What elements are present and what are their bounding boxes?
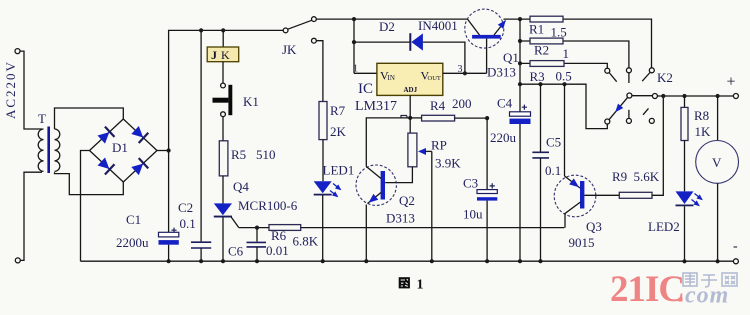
transistor Q3 base bar — [580, 181, 584, 209]
label J K — [211, 48, 230, 62]
relay contact K1 blade — [213, 85, 233, 115]
diode D1b (top corner to right corner) — [130, 125, 148, 143]
pin number 3 — [458, 64, 463, 75]
switch K2 bottom middle contact — [626, 118, 631, 123]
svg-text:D313: D313 — [386, 211, 415, 226]
wire: top rail from JK to Q1 collector — [316, 18, 467, 20]
label 3.9K — [435, 156, 461, 171]
svg-text:200: 200 — [452, 96, 472, 111]
switch K2 bottom left contact — [605, 119, 610, 124]
wire: RP bottom to Q2 base — [385, 167, 412, 183]
bridge D1 diamond arms — [90, 119, 158, 182]
resistor R5 — [219, 141, 228, 176]
label R2 — [534, 43, 549, 58]
node: Q2 emitter ground junction — [364, 259, 368, 263]
wire: ground rail — [81, 260, 734, 262]
wire: D2 line left segment — [354, 41, 410, 43]
pin number 1 — [353, 64, 358, 75]
node: junction bridge plus — [167, 148, 171, 152]
wire: VOUT wire to Q1 base — [443, 72, 487, 74]
svg-text:R7: R7 — [330, 103, 346, 118]
switch K2 bottom middle contact stub — [628, 110, 630, 119]
wire: R5 to SCR Q4 anode — [222, 176, 224, 204]
node: LED2 ground junction — [682, 259, 686, 263]
node: R9 output junction — [661, 94, 665, 98]
svg-text:220u: 220u — [490, 130, 517, 145]
wire: R4 to C3 column — [455, 117, 488, 119]
wire: gate line to R6 — [239, 227, 269, 229]
label R8 — [694, 108, 709, 123]
label 2200u — [116, 235, 149, 250]
svg-text:0.1: 0.1 — [545, 163, 561, 178]
wire: R8 top connection — [684, 96, 686, 107]
switch K2 top middle contact — [626, 68, 631, 73]
wire: gate line from R6 to Q3 collector corner — [301, 227, 565, 229]
svg-text:V: V — [712, 155, 722, 170]
node: AC input terminal top — [15, 49, 20, 54]
svg-text:D1: D1 — [112, 140, 128, 155]
capacitor C2 plates — [191, 242, 211, 248]
watermark 21IC — [610, 269, 684, 310]
label D313 Q1 — [487, 65, 516, 80]
wire: K2 pole to pole output contact — [632, 95, 653, 97]
wire: Q1 base down to VOUT line — [486, 39, 488, 74]
pin label Vout — [421, 69, 441, 83]
label R7 — [330, 103, 346, 118]
label minus terminal — [733, 239, 738, 254]
label MCR100-6 — [238, 198, 298, 213]
label R1 — [529, 22, 544, 37]
resistor R9 — [619, 192, 652, 198]
switch K2 pole — [627, 93, 632, 98]
wire: R3 line to K2 top left contact — [520, 63, 607, 68]
switch K2 top middle contact stub — [628, 73, 630, 83]
svg-text:OUT: OUT — [428, 75, 441, 82]
transistor Q1 base bar — [472, 35, 501, 39]
wire: LED1 cathode to ground rail — [322, 196, 324, 262]
capacitor C6 plates — [247, 242, 267, 247]
node: D2 anode junction — [352, 40, 356, 44]
label C5 — [546, 135, 561, 150]
svg-text:C1: C1 — [126, 212, 141, 227]
wire: VIN wire — [354, 72, 377, 74]
potentiometer RP body — [408, 133, 417, 167]
resistor R3 — [530, 61, 564, 67]
wire: ADJ node left to Q2 collector — [366, 118, 410, 167]
svg-text:510: 510 — [256, 147, 276, 162]
svg-text:LM317: LM317 — [355, 99, 397, 114]
wire: C6 to ground rail — [256, 247, 258, 261]
svg-text:D2: D2 — [379, 19, 395, 34]
label K1 — [243, 94, 259, 109]
svg-text:AC220V: AC220V — [3, 60, 18, 119]
svg-text:6.8K: 6.8K — [293, 234, 319, 249]
node: C1 ground junction — [167, 259, 171, 263]
svg-text:C6: C6 — [228, 244, 244, 259]
resistor R4 — [422, 115, 455, 121]
wire: LED2 to ground rail — [684, 206, 686, 261]
capacitor C4 plus mark — [522, 105, 527, 110]
label 10u — [463, 207, 483, 222]
svg-text:IC: IC — [358, 81, 373, 97]
node: output node junction — [518, 82, 522, 86]
svg-text:5.6K: 5.6K — [634, 169, 660, 184]
label 0.01 — [266, 243, 289, 258]
transistor Q1 emitter lead with arrow — [494, 18, 509, 35]
node: LED1 ground junction — [321, 259, 325, 263]
wire: RP wiper down to ground rail — [431, 151, 433, 261]
wire: ADJ node to R4 — [410, 117, 421, 119]
wire: R7 to LED1 — [322, 140, 324, 182]
svg-text:+: + — [727, 74, 736, 91]
svg-text:R2: R2 — [534, 43, 549, 58]
node: ADJ junction — [408, 116, 412, 120]
label 2K — [330, 124, 347, 139]
svg-text:R3: R3 — [530, 69, 545, 84]
svg-text:IN: IN — [388, 74, 395, 82]
label R5 — [231, 147, 246, 162]
wire: C4 to ground rail — [519, 124, 521, 261]
node: SCR ground junction — [221, 259, 225, 263]
capacitor C1 bottom plate — [159, 240, 179, 245]
svg-text:J: J — [211, 48, 217, 62]
wire: bridge minus (left corner) down to ground rail — [81, 151, 90, 262]
wire: C3 column down — [486, 118, 488, 190]
wire: positive column x=168.6 up to switch feed line — [169, 30, 284, 150]
diode D1a (left corner to top corner) — [97, 127, 115, 145]
svg-text:JK: JK — [282, 42, 297, 57]
caption figure 1 number — [417, 278, 424, 293]
svg-text:21IC: 21IC — [610, 269, 684, 310]
wire: relay coil to K1 contact top — [222, 62, 224, 83]
pin label Vin — [380, 69, 395, 83]
node: voltmeter output junction — [716, 94, 720, 98]
voltmeter V circle — [696, 141, 739, 184]
svg-text:0.1: 0.1 — [180, 216, 196, 231]
wire: SCR gate slant to gate line — [231, 217, 239, 228]
svg-text:1: 1 — [353, 64, 358, 75]
label LED1 — [323, 163, 355, 178]
switch JK blade — [288, 20, 312, 29]
label C1 — [126, 212, 141, 227]
transistor Q3 collector lead — [565, 202, 581, 228]
svg-text:Q2: Q2 — [399, 193, 415, 208]
svg-text:ADJ: ADJ — [404, 86, 418, 94]
capacitor C3 plus mark — [490, 183, 495, 188]
switch JK lower contact — [312, 38, 317, 43]
svg-text:0.01: 0.01 — [266, 243, 289, 258]
label R9 — [612, 169, 627, 184]
LED2 cathode bar — [676, 205, 694, 207]
resistor R2 — [530, 38, 563, 44]
node: D2 to VOUT junction — [463, 71, 467, 75]
capacitor C5 plates — [532, 152, 549, 158]
label 0.1 C5 — [545, 163, 561, 178]
wire: C5 to ground rail — [540, 158, 542, 261]
label 0.5 — [556, 69, 572, 84]
label R4 — [430, 98, 446, 113]
label 1.5 — [551, 25, 567, 40]
wire: RP top connection — [409, 118, 411, 133]
svg-text:R5: R5 — [231, 147, 246, 162]
label 1K — [695, 124, 712, 139]
label R3 — [530, 69, 545, 84]
label Q3 — [586, 219, 602, 234]
svg-text:R6: R6 — [271, 228, 287, 243]
svg-text:LED2: LED2 — [648, 219, 680, 234]
wire: C1 to ground rail — [168, 245, 170, 262]
svg-text:C5: C5 — [546, 135, 561, 150]
svg-text:9015: 9015 — [569, 235, 595, 250]
svg-text:R1: R1 — [529, 22, 544, 37]
watermark com — [685, 283, 729, 309]
wire: Q2 emitter to ground rail — [365, 205, 367, 262]
transistor Q1 circle — [465, 9, 504, 48]
relay coil JK box — [207, 47, 239, 62]
wire: D2 line right segment down to VOUT — [423, 42, 465, 73]
svg-text:-: - — [733, 239, 738, 254]
resistor R1 — [530, 16, 563, 22]
svg-text:C3: C3 — [463, 176, 478, 191]
LED2 emission arrows — [692, 194, 705, 209]
node: C3 ground junction — [485, 259, 489, 263]
wire: C5 column down — [540, 84, 542, 151]
wire: transformer primary bottom to AC bottom terminal — [20, 172, 42, 260]
switch K2 top right contact stub — [642, 73, 650, 82]
wire: R8 to LED2 — [684, 141, 686, 192]
capacitor C4 plus plate — [510, 112, 531, 116]
svg-text:2K: 2K — [330, 124, 347, 139]
LED1 emission arrows — [330, 184, 343, 200]
wire: top rail from Q1 emitter to K2 — [504, 19, 652, 68]
capacitor C4 bottom plate — [510, 119, 531, 124]
label D2 — [379, 19, 395, 34]
transformer T core — [47, 127, 50, 174]
label 220u — [490, 130, 517, 145]
svg-text:3: 3 — [458, 64, 463, 75]
svg-text:Q1: Q1 — [503, 50, 519, 65]
transistor Q2 emitter lead with arrow — [366, 193, 381, 206]
wire: output node to K2 bottom left contact — [520, 84, 607, 128]
pin number 2 mark at ADJ junction — [401, 116, 408, 119]
svg-text:1: 1 — [417, 278, 424, 293]
watermark dianziwang glyphs — [683, 273, 737, 287]
resistor R6 — [269, 225, 301, 231]
transistor Q2 circle — [356, 165, 396, 205]
switch K2 top left contact — [605, 68, 610, 73]
label LM317 — [355, 99, 397, 114]
diode D1d (bottom corner to right corner) — [130, 158, 148, 176]
node: Q3 emitter junction — [562, 82, 566, 86]
label plus terminal — [727, 74, 736, 91]
transformer T primary winding — [38, 129, 43, 171]
transistor Q2 base bar — [381, 171, 385, 200]
node: AC input terminal bottom — [15, 258, 20, 263]
wire: top rail down to D2 and VIN — [353, 19, 355, 73]
wire: ADJ pin down — [409, 95, 411, 118]
switch JK upper contact — [312, 17, 317, 22]
label 6.8K — [293, 234, 319, 249]
SCR Q4 triangle — [214, 203, 232, 215]
svg-text:IN4001: IN4001 — [418, 18, 458, 33]
capacitor C1 top plate — [159, 232, 179, 237]
pin label ADJ — [404, 86, 418, 94]
svg-text:RP: RP — [431, 138, 447, 153]
switch K2 bottom right contact stub — [643, 108, 649, 114]
IC U1 LM317 body — [377, 63, 443, 95]
node: plus output terminal — [733, 94, 738, 99]
label 9015 — [569, 235, 595, 250]
label C2 — [178, 200, 193, 215]
label RP — [431, 138, 447, 153]
node: K1 contact bottom terminal — [221, 112, 226, 117]
node: R4 to C3 junction — [485, 116, 489, 120]
node: junction C2 top on feed line — [199, 28, 203, 32]
transistor Q3 circle — [554, 175, 596, 217]
LED1 cathode bar — [314, 194, 332, 196]
node: R1 tap junction on emitter rail — [518, 17, 522, 21]
transistor Q1 collector lead — [468, 19, 480, 35]
capacitor C3 bottom plate — [477, 197, 497, 200]
svg-text:K1: K1 — [243, 94, 259, 109]
resistor R8 — [681, 107, 688, 140]
wire: Q3 emitter column — [564, 84, 566, 176]
svg-text:3.9K: 3.9K — [435, 156, 461, 171]
transistor Q3 emitter lead with arrow — [565, 176, 582, 190]
label R6 — [271, 228, 287, 243]
node: RP wiper ground junction — [430, 259, 434, 263]
label D313 Q2 — [386, 211, 415, 226]
node: R3 tap junction — [518, 61, 522, 65]
node: C5 top junction — [538, 82, 542, 86]
svg-text:C4: C4 — [497, 96, 513, 111]
switch K2 top right contact — [649, 68, 654, 73]
potentiometer RP wiper arrow — [418, 148, 432, 155]
svg-text:R9: R9 — [612, 169, 627, 184]
label LED2 — [648, 219, 680, 234]
switch JK pole terminal — [283, 28, 288, 33]
wire: voltmeter to ground rail — [717, 183, 719, 261]
SCR Q4 cathode bar — [214, 216, 232, 218]
label C3 — [463, 176, 478, 191]
label IN4001 — [418, 18, 458, 33]
svg-text:MCR100-6: MCR100-6 — [238, 198, 298, 213]
svg-text:K2: K2 — [657, 70, 673, 85]
wire: bridge plus (right corner) to main positive column — [157, 150, 169, 152]
node: K1 contact top terminal — [221, 83, 226, 88]
label K2 — [657, 70, 673, 85]
node: junction relay coil top on feed line — [221, 28, 225, 32]
transistor Q2 collector lead — [366, 167, 381, 179]
wire: R9 right end up to output line — [652, 96, 663, 195]
node: minus output terminal — [733, 259, 738, 264]
wire: C2 column down from feed line — [200, 30, 202, 241]
svg-text:1.5: 1.5 — [551, 25, 567, 40]
node: C2 ground junction — [199, 259, 203, 263]
wire: output line to plus terminal — [657, 95, 733, 97]
wire: K1 to resistor R5 — [222, 117, 224, 141]
wire: R2 line to K2 top middle contact — [520, 41, 629, 68]
node: C4 ground junction — [518, 259, 522, 263]
wire: C2 to ground rail — [200, 248, 202, 261]
label 0.1 C2 — [180, 216, 196, 231]
wire: JK lower contact to R7 — [316, 41, 323, 102]
svg-text:D313: D313 — [487, 65, 516, 80]
switch K2 wiper with arrow — [609, 97, 628, 119]
label AC220V — [3, 60, 18, 119]
svg-text:T: T — [38, 111, 46, 126]
wire: C3 to ground rail — [486, 201, 488, 262]
svg-text:Q3: Q3 — [586, 219, 602, 234]
node: C6 ground junction — [255, 259, 259, 263]
label C4 — [497, 96, 513, 111]
label 1 — [563, 46, 570, 61]
capacitor C1 plus mark — [171, 228, 176, 233]
wire: SCR cathode to ground rail — [222, 218, 224, 262]
label V meter — [712, 155, 722, 170]
caption figure 1 glyph — [399, 277, 410, 288]
svg-text:K: K — [221, 48, 230, 62]
label JK — [282, 42, 297, 57]
svg-text:1: 1 — [563, 46, 570, 61]
label Q2 — [399, 193, 415, 208]
svg-text:2200u: 2200u — [116, 235, 149, 250]
switch K2 bottom right contact — [649, 118, 654, 123]
svg-text:0.5: 0.5 — [556, 69, 572, 84]
node: voltmeter ground junction — [716, 259, 720, 263]
wire: secondary top to bridge top corner — [55, 108, 124, 129]
svg-text:Q4: Q4 — [233, 179, 249, 194]
label Q1 — [503, 50, 519, 65]
switch K2 pole output contact — [652, 94, 657, 99]
svg-text:1K: 1K — [695, 124, 712, 139]
diode D2 triangle — [411, 33, 423, 50]
node: D2 left junction on top rail — [352, 17, 356, 21]
transistor Q3 base lead — [584, 194, 619, 196]
resistor R7 — [319, 102, 327, 140]
svg-text:10u: 10u — [463, 207, 483, 222]
node: C5 ground junction — [538, 259, 542, 263]
wire: AC top terminal to transformer primary top — [20, 51, 42, 129]
node: C6 top junction — [255, 226, 259, 230]
wire: sense rail down from emitter — [519, 19, 521, 112]
wire: C6 down from gate line — [256, 228, 258, 242]
label C6 — [228, 244, 244, 259]
switch K2 top left contact stub — [609, 73, 617, 82]
label 5.6K — [634, 169, 660, 184]
wire: feed line down to relay coil JK — [222, 30, 224, 47]
svg-text:C2: C2 — [178, 200, 193, 215]
label T — [38, 111, 46, 126]
node: R8 output junction — [682, 94, 686, 98]
label 200 — [452, 96, 472, 111]
label IC — [358, 81, 373, 97]
diode D2 cathode bar — [409, 33, 411, 51]
wire: secondary bottom to bridge bottom corner — [55, 172, 124, 194]
capacitor C3 plus plate — [477, 190, 497, 194]
label D1 — [112, 140, 128, 155]
LED2 triangle — [676, 191, 694, 204]
svg-text:R8: R8 — [694, 108, 709, 123]
transformer T secondary winding — [55, 129, 60, 171]
diode D1c (left corner to bottom corner) — [97, 156, 115, 174]
svg-text:R4: R4 — [430, 98, 446, 113]
wire: voltmeter top connection — [717, 96, 719, 141]
LED1 triangle — [314, 181, 332, 193]
label 510 — [256, 147, 276, 162]
label Q4 — [233, 179, 249, 194]
wire: positive column down to C1 — [168, 151, 170, 233]
